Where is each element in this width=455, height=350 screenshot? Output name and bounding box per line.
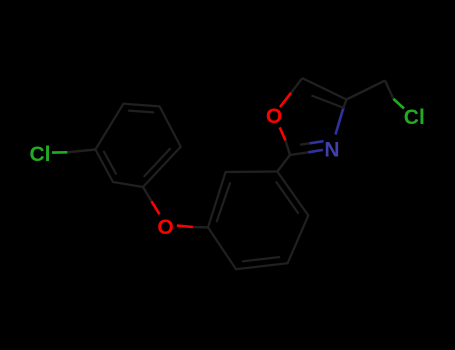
bond C2=N3 inner: carbon half — [300, 143, 310, 144]
bond C4=C5 inner — [312, 96, 345, 109]
wire ring edge R-BR — [288, 216, 309, 264]
bond C2=N3 main: nitrogen half — [308, 150, 323, 152]
bond ring-O ether upper: oxygen half — [152, 201, 160, 214]
wire ring edge BR-BL — [236, 263, 288, 269]
bond O-ring right: oxygen half — [177, 226, 193, 227]
bond C2=N3 main: carbon half — [290, 152, 308, 155]
wire ring edge BL-L — [208, 227, 236, 269]
bond O1-C5: oxygen half — [280, 93, 291, 107]
wire inner double VE-VF — [129, 111, 154, 113]
bond C4=C5 main — [302, 78, 347, 100]
bond C-Cl left: carbon half — [67, 150, 95, 153]
bond O-ring right: carbon half — [193, 226, 208, 229]
chlorophenyl ring (left benzene) — [95, 104, 180, 187]
bond N3-C4: nitrogen half — [336, 108, 344, 135]
wire inner double VA-VB — [104, 152, 116, 174]
bond N3-C4: carbon half — [344, 100, 347, 108]
wire ring edge TL-TR — [226, 170, 278, 173]
bond C-Cl left: chlorine half — [52, 151, 67, 154]
svg-text:O: O — [266, 105, 282, 128]
bond ring-O ether upper: carbon half — [143, 187, 152, 201]
wire ring edge TR-R — [277, 172, 308, 216]
wire inner double L-TL — [217, 183, 230, 221]
wire ring edge VF-VA — [95, 104, 123, 150]
wire inner double VC-VD — [144, 149, 170, 176]
wire ring edge VB-VC — [113, 182, 143, 187]
wire ring edge VA-VB — [95, 150, 113, 183]
bond CH2-Cl right: carbon half — [385, 81, 393, 99]
bond O1-C2: carbon half — [286, 141, 291, 156]
wire ring edge L-TL — [208, 172, 226, 227]
wire inner double BR-BL — [243, 257, 279, 261]
bond C2=N3 inner: nitrogen half — [310, 141, 324, 143]
wire inner double TR-R — [276, 182, 298, 213]
bond O1-C5: carbon half — [291, 79, 302, 93]
wire ring edge VC-VD — [143, 147, 181, 187]
wire ring edge VD-VE — [160, 106, 181, 146]
bond O1-C2: oxygen half — [280, 127, 286, 140]
svg-text:N: N — [324, 139, 339, 162]
central benzene ring — [208, 172, 308, 270]
bond benzene-oxazole C2 — [277, 155, 290, 172]
svg-text:O: O — [157, 216, 173, 239]
svg-text:Cl: Cl — [404, 106, 425, 129]
wire ring edge VE-VF — [124, 104, 160, 107]
bond C4-CH2 — [347, 81, 386, 100]
bond CH2-Cl right: chlorine half — [393, 99, 404, 109]
svg-text:Cl: Cl — [30, 143, 51, 166]
